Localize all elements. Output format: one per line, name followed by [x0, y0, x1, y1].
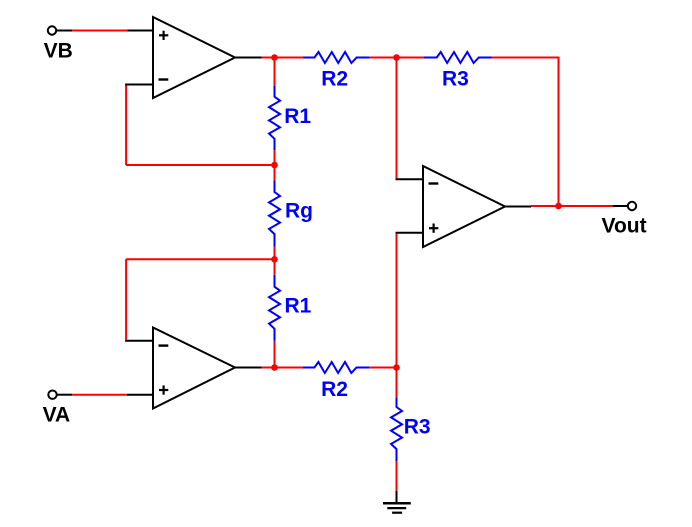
svg-text:R3: R3 — [442, 68, 469, 91]
terminal VA — [43, 391, 71, 427]
wire VA net (red) — [72, 394, 127, 396]
resistor R3 (top) — [424, 52, 492, 91]
wire R3 to right corner (red) — [492, 57, 560, 59]
resistor R1 (top, vertical) — [269, 86, 311, 150]
svg-text:R1: R1 — [285, 294, 312, 317]
resistor R2 (bottom) — [303, 362, 370, 401]
wire U2 + input pin stub (black) — [127, 394, 153, 396]
wire U2 feedback horizontal (red) — [126, 258, 274, 260]
wire U1 output pin stub (black) — [235, 57, 262, 59]
wire node down to R3 (red) — [396, 368, 398, 398]
svg-text:R1: R1 — [284, 105, 311, 128]
svg-text:R2: R2 — [321, 378, 348, 401]
svg-text:Rg: Rg — [285, 200, 313, 223]
wire U1 feedback vertical (red) — [125, 86, 127, 166]
svg-text:R2: R2 — [321, 68, 348, 91]
svg-text:Vout: Vout — [602, 215, 647, 238]
op-amp U1 (top-left) — [153, 17, 235, 98]
wire R2 to node (red) — [369, 57, 423, 59]
wire U3 - input pin stub (black) — [396, 178, 424, 180]
op-amp U3 (right) — [423, 166, 505, 247]
resistor R1 (bottom, vertical) — [269, 275, 312, 341]
wire U1 + input pin stub (black) — [128, 30, 154, 32]
wire VB net (red) — [72, 30, 128, 32]
wire VB pin stub (black) — [56, 30, 72, 32]
wire U2 feedback vertical (red) — [125, 259, 127, 339]
wire R1 to node (red) — [274, 150, 276, 180]
wire U2 output pin stub (black) — [235, 367, 262, 369]
wire U1 - input pin stub (black) — [125, 84, 153, 86]
node R2/R3 junction dot — [393, 54, 400, 61]
node R2/R3/U3+ junction dot — [393, 364, 400, 371]
ground — [383, 491, 411, 513]
node Vout junction dot — [555, 203, 562, 210]
wire U1 output to R2 (red) — [262, 57, 304, 59]
node U1out junction dot — [271, 54, 278, 61]
wire U3 output pin stub (black) — [505, 206, 531, 208]
resistor Rg (vertical) — [269, 181, 313, 247]
node U2out junction dot — [271, 364, 278, 371]
wire U1 feedback horizontal (red) — [126, 164, 274, 166]
terminal VB — [44, 26, 73, 62]
svg-text:R3: R3 — [404, 416, 431, 439]
wire node R2/R3 top down to U3 - (red) — [396, 58, 398, 179]
node R1/Rg junction dot — [271, 162, 278, 169]
wire U2 - input pin stub (black) — [125, 340, 153, 342]
terminal Vout — [602, 202, 647, 238]
op-amp U2 (bottom-left) — [153, 328, 235, 409]
wire VA pin stub (black) — [57, 394, 73, 396]
wire right feedback vertical (red) — [558, 58, 560, 207]
svg-text:VB: VB — [44, 40, 73, 63]
node Rg/R1 junction dot — [271, 256, 278, 263]
wire U3 output to Vout (red) — [531, 205, 613, 207]
wire R3 to ground (red) — [396, 461, 398, 490]
wire U3 + input pin stub (black) — [396, 232, 424, 234]
wire U2 output to R2 (red) — [262, 367, 303, 369]
svg-text:VA: VA — [43, 404, 71, 427]
resistor R3 (bottom, vertical) — [391, 397, 431, 461]
wire node up to U3 + (red) — [396, 234, 398, 368]
resistor R2 (top) — [303, 52, 369, 91]
wire node to R1 top (red) — [274, 58, 276, 87]
wire R2 to node (red) — [369, 367, 396, 369]
wire R1 to node (red) — [274, 341, 276, 368]
wire Vout pin stub (black) — [613, 205, 628, 207]
wire Rg to node (red) — [274, 247, 276, 275]
